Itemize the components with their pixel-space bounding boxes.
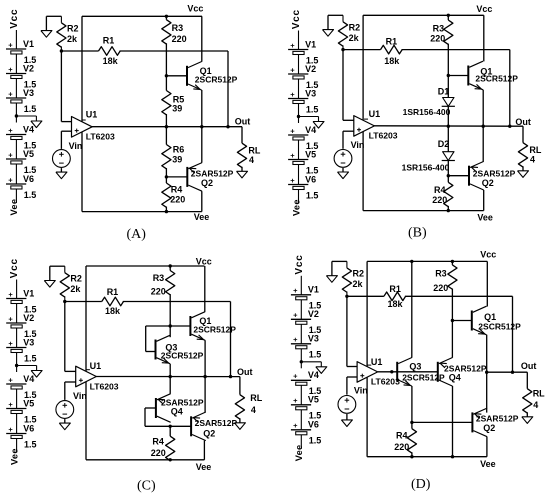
- svg-text:18k: 18k: [388, 299, 404, 309]
- svg-text:1.5: 1.5: [306, 104, 319, 114]
- svg-text:Q2: Q2: [201, 178, 213, 188]
- svg-text:+: +: [8, 339, 13, 348]
- svg-text:V1: V1: [308, 285, 319, 295]
- svg-text:V1: V1: [23, 39, 34, 49]
- svg-text:Vin: Vin: [69, 141, 83, 151]
- svg-text:220: 220: [430, 33, 445, 43]
- svg-text:+: +: [8, 290, 13, 299]
- svg-text:2k: 2k: [70, 284, 81, 294]
- svg-text:1.5: 1.5: [306, 190, 319, 200]
- svg-text:Q2: Q2: [483, 423, 495, 433]
- svg-text:220: 220: [433, 283, 448, 293]
- svg-text:D2: D2: [438, 139, 450, 149]
- svg-text:Vin: Vin: [73, 391, 87, 401]
- svg-text:R1: R1: [389, 284, 401, 294]
- svg-text:Vee: Vee: [294, 445, 304, 462]
- svg-text:R4: R4: [434, 185, 446, 195]
- svg-text:1.5: 1.5: [309, 350, 322, 360]
- svg-text:Vcc: Vcc: [9, 258, 20, 278]
- svg-text:+: +: [8, 314, 13, 323]
- svg-text:+: +: [293, 335, 298, 344]
- svg-text:Vcc: Vcc: [291, 9, 302, 29]
- svg-text:4: 4: [530, 155, 535, 165]
- svg-text:LT6203: LT6203: [371, 376, 400, 386]
- svg-text:Vin: Vin: [351, 140, 365, 150]
- svg-text:D1: D1: [438, 86, 450, 96]
- svg-text:R4: R4: [152, 436, 164, 446]
- svg-text:+: +: [8, 40, 13, 49]
- svg-text:LT6203: LT6203: [86, 131, 115, 141]
- svg-text:LT6203: LT6203: [90, 382, 119, 392]
- svg-text:Vee: Vee: [194, 212, 210, 222]
- svg-text:R2: R2: [67, 24, 79, 34]
- svg-text:Vee: Vee: [480, 459, 496, 469]
- svg-text:V4: V4: [305, 125, 316, 135]
- svg-text:V3: V3: [23, 337, 34, 347]
- svg-text:V4: V4: [308, 370, 319, 380]
- svg-text:R1: R1: [386, 36, 398, 46]
- svg-text:+: +: [8, 375, 13, 384]
- svg-text:V1: V1: [305, 39, 316, 49]
- svg-text:+: +: [290, 151, 295, 160]
- svg-text:R3: R3: [433, 24, 445, 34]
- svg-text:220: 220: [151, 448, 166, 458]
- svg-text:U1: U1: [90, 361, 102, 371]
- svg-text:R3: R3: [172, 23, 184, 33]
- svg-text:(C): (C): [137, 479, 156, 494]
- svg-text:1.5: 1.5: [24, 104, 37, 114]
- svg-text:V2: V2: [308, 309, 319, 319]
- svg-text:2SCR512P: 2SCR512P: [193, 324, 236, 334]
- svg-text:220: 220: [172, 34, 187, 44]
- svg-text:+: +: [8, 175, 13, 184]
- svg-text:+: +: [290, 65, 295, 74]
- svg-text:39: 39: [172, 104, 182, 114]
- svg-text:1.5: 1.5: [24, 353, 37, 363]
- svg-text:Vee: Vee: [9, 199, 19, 216]
- svg-text:+: +: [8, 150, 13, 159]
- svg-text:V5: V5: [305, 149, 316, 159]
- svg-text:V1: V1: [23, 288, 34, 298]
- svg-text:220: 220: [432, 195, 447, 205]
- svg-text:Vcc: Vcc: [480, 250, 496, 260]
- svg-text:+: +: [290, 41, 295, 50]
- svg-text:1.5: 1.5: [24, 190, 37, 200]
- svg-text:Q4: Q4: [171, 407, 183, 417]
- svg-text:Q4: Q4: [449, 372, 461, 382]
- svg-text:Vcc: Vcc: [187, 4, 203, 14]
- svg-text:1.5: 1.5: [309, 436, 322, 446]
- svg-text:V6: V6: [23, 423, 34, 433]
- svg-text:V3: V3: [23, 88, 34, 98]
- svg-text:4: 4: [249, 155, 254, 165]
- svg-text:2SCR512P: 2SCR512P: [475, 74, 518, 84]
- svg-text:2SAR512P: 2SAR512P: [195, 418, 238, 428]
- svg-text:220: 220: [151, 286, 166, 296]
- svg-text:(D): (D): [411, 477, 431, 492]
- svg-text:(B): (B): [408, 226, 427, 241]
- svg-text:+: +: [8, 89, 13, 98]
- svg-text:+: +: [293, 311, 298, 320]
- svg-text:+: +: [293, 286, 298, 295]
- svg-text:Q3: Q3: [409, 361, 421, 371]
- svg-text:Vee: Vee: [9, 448, 19, 465]
- svg-text:V4: V4: [23, 124, 34, 134]
- svg-text:2k: 2k: [349, 33, 360, 43]
- svg-text:R1: R1: [107, 287, 119, 297]
- svg-text:1SR156-400: 1SR156-400: [402, 163, 450, 173]
- svg-text:+: +: [290, 126, 295, 135]
- svg-text:Q2: Q2: [482, 178, 494, 188]
- svg-text:R3: R3: [153, 273, 165, 283]
- svg-text:+: +: [8, 126, 13, 135]
- svg-text:+: +: [293, 372, 298, 381]
- svg-text:39: 39: [172, 154, 182, 164]
- svg-text:R2: R2: [70, 274, 82, 284]
- svg-text:2k: 2k: [353, 279, 364, 289]
- svg-text:V3: V3: [305, 88, 316, 98]
- svg-text:Vee: Vee: [291, 199, 301, 216]
- svg-text:V6: V6: [305, 174, 316, 184]
- svg-text:4: 4: [533, 400, 538, 410]
- svg-text:+: +: [293, 421, 298, 430]
- svg-text:2SCR512P: 2SCR512P: [195, 74, 238, 84]
- svg-text:V2: V2: [23, 63, 34, 73]
- svg-text:2SCR512P: 2SCR512P: [161, 350, 204, 360]
- svg-text:18k: 18k: [384, 56, 400, 66]
- svg-text:220: 220: [394, 442, 409, 452]
- svg-text:1.5: 1.5: [24, 439, 37, 449]
- svg-text:V5: V5: [308, 395, 319, 405]
- svg-text:R3: R3: [435, 269, 447, 279]
- svg-text:18k: 18k: [103, 56, 119, 66]
- svg-text:Vcc: Vcc: [196, 257, 212, 267]
- svg-text:Out: Out: [515, 117, 531, 127]
- svg-text:R2: R2: [353, 269, 365, 279]
- svg-text:RL: RL: [533, 388, 545, 398]
- svg-text:1SR156-400: 1SR156-400: [403, 107, 451, 117]
- svg-text:Vcc: Vcc: [9, 9, 20, 29]
- svg-text:+: +: [290, 176, 295, 185]
- svg-text:4: 4: [251, 405, 256, 415]
- svg-text:Vee: Vee: [196, 462, 212, 472]
- svg-text:LT6203: LT6203: [369, 131, 398, 141]
- svg-text:V3: V3: [308, 334, 319, 344]
- svg-text:V5: V5: [23, 149, 34, 159]
- svg-text:+: +: [8, 65, 13, 74]
- svg-text:Q2: Q2: [203, 429, 215, 439]
- svg-text:Vcc: Vcc: [476, 4, 492, 14]
- svg-text:+: +: [8, 425, 13, 434]
- svg-text:RL: RL: [250, 393, 262, 403]
- svg-text:+: +: [8, 400, 13, 409]
- svg-text:V5: V5: [23, 398, 34, 408]
- svg-text:R4: R4: [396, 430, 408, 440]
- svg-text:2SAR512P: 2SAR512P: [473, 168, 516, 178]
- svg-text:Out: Out: [235, 116, 251, 126]
- svg-text:R6: R6: [173, 145, 185, 155]
- svg-text:Out: Out: [521, 361, 537, 371]
- svg-text:R4: R4: [171, 184, 183, 194]
- svg-text:+: +: [293, 396, 298, 405]
- svg-text:U1: U1: [371, 357, 383, 367]
- svg-text:Vin: Vin: [354, 386, 368, 396]
- svg-text:U1: U1: [369, 109, 381, 119]
- svg-text:Vee: Vee: [477, 212, 493, 222]
- svg-text:V2: V2: [23, 313, 34, 323]
- svg-text:Out: Out: [237, 367, 253, 377]
- svg-text:R1: R1: [103, 36, 115, 46]
- svg-text:V2: V2: [305, 64, 316, 74]
- svg-text:(A): (A): [127, 227, 147, 242]
- svg-text:Vcc: Vcc: [294, 254, 305, 274]
- svg-text:2k: 2k: [67, 34, 78, 44]
- svg-text:220: 220: [170, 194, 185, 204]
- svg-text:18k: 18k: [105, 306, 121, 316]
- svg-text:V4: V4: [23, 374, 34, 384]
- svg-text:V6: V6: [308, 420, 319, 430]
- svg-text:U1: U1: [86, 110, 98, 120]
- svg-text:2SCR512P: 2SCR512P: [478, 322, 521, 332]
- svg-text:R2: R2: [349, 23, 361, 33]
- svg-text:V6: V6: [23, 174, 34, 184]
- svg-text:+: +: [290, 90, 295, 99]
